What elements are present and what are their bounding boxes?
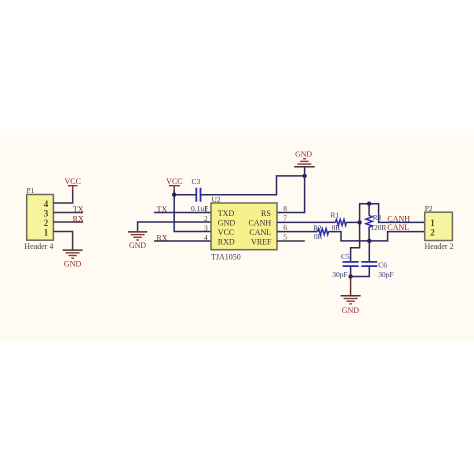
wire junction down to ground symbol (350, 277, 352, 296)
power port VCC (at U2) (166, 177, 182, 191)
svg-text:GND: GND (295, 150, 312, 159)
svg-text:GND: GND (64, 260, 82, 269)
IC U2 TJA1050 (204, 195, 287, 261)
wire TX to U2 pin1 (154, 212, 211, 214)
svg-text:VCC: VCC (166, 177, 182, 186)
svg-text:R3: R3 (373, 213, 382, 222)
junction R3 bottom / C6 (367, 239, 371, 243)
wire C5 bottom to ground junction (350, 266, 352, 276)
capacitor C6 (361, 260, 393, 279)
svg-text:2: 2 (204, 214, 208, 223)
svg-text:RS: RS (261, 209, 271, 218)
svg-text:GND: GND (129, 241, 146, 250)
junction R3 top (367, 202, 371, 206)
svg-text:0R: 0R (332, 223, 341, 232)
wire C6 bottom to ground junction (351, 266, 370, 276)
wire P1 pin1 to ground (53, 232, 72, 250)
svg-text:6: 6 (283, 223, 287, 232)
svg-text:4: 4 (204, 233, 208, 242)
wire CANH junction down to C5 (351, 222, 360, 261)
wire P1 pin4 to VCC riser (53, 190, 72, 203)
svg-text:CANH: CANH (387, 214, 410, 223)
ground symbol (U2 pin2) (128, 232, 147, 250)
capacitor C5 (332, 252, 358, 279)
resistor R1 (331, 210, 347, 232)
wire VCC riser to U2 pin3 (174, 190, 211, 232)
svg-text:P2: P2 (425, 204, 433, 213)
wire CANH up-and-over R3 (360, 204, 425, 223)
svg-text:C3: C3 (192, 177, 201, 186)
resistor R3 120R termination (366, 204, 387, 241)
svg-text:TX: TX (73, 205, 84, 214)
svg-text:GND: GND (218, 219, 236, 228)
wire U2 pin5 stub (277, 240, 305, 242)
wire junction down to U2 pin8 (277, 176, 305, 213)
wire VCC junction to C3 left plate (174, 194, 196, 196)
svg-text:TXD: TXD (218, 209, 235, 218)
resistor R2 (313, 223, 328, 241)
svg-text:RXD: RXD (218, 238, 235, 247)
wire U2 pin7 to R1 (277, 221, 335, 223)
svg-text:P1: P1 (27, 186, 35, 195)
svg-text:30pF: 30pF (378, 270, 393, 279)
wire P1 pin2 stub (net RX) (53, 221, 83, 223)
junction GND/RS (302, 174, 306, 178)
svg-text:Header 4: Header 4 (24, 242, 53, 251)
svg-text:1: 1 (204, 205, 208, 214)
svg-text:TJA1050: TJA1050 (211, 252, 241, 261)
svg-text:8: 8 (283, 204, 287, 213)
wire GND to U2 pin2 (138, 222, 211, 231)
junction CANH (357, 220, 361, 224)
wire R1 to CANH junction (346, 221, 359, 223)
svg-text:VREF: VREF (251, 238, 272, 247)
junction ground node (348, 274, 352, 278)
svg-text:RX: RX (156, 233, 167, 242)
svg-text:R1: R1 (331, 210, 340, 219)
svg-text:3: 3 (204, 224, 208, 233)
svg-text:Header 2: Header 2 (425, 242, 454, 251)
wire U2 pin6 to R2 (277, 231, 317, 233)
ground symbol under P1 (63, 250, 83, 269)
ground symbol (bottom) (341, 296, 361, 315)
svg-text:RX: RX (73, 214, 84, 223)
svg-text:3: 3 (44, 208, 49, 218)
svg-text:1: 1 (44, 227, 49, 237)
svg-text:C6: C6 (378, 260, 387, 269)
svg-text:CANL: CANL (249, 228, 271, 237)
ground symbol (top, inverted) (294, 150, 315, 176)
power port VCC (left) (64, 177, 80, 191)
svg-text:GND: GND (342, 306, 360, 315)
wire R2 jog under R3 to P2 pin2 (net CANL) (329, 232, 425, 241)
svg-text:VCC: VCC (64, 177, 80, 186)
wire C6 top lead (368, 241, 370, 262)
svg-text:VCC: VCC (218, 228, 234, 237)
junction VCC/C3 (172, 193, 176, 197)
svg-text:2: 2 (430, 227, 435, 237)
capacitor C3 (191, 177, 208, 213)
connector P1 (24, 186, 53, 251)
svg-text:C5: C5 (341, 252, 350, 261)
svg-text:7: 7 (283, 214, 287, 223)
svg-text:CANL: CANL (387, 223, 409, 232)
wire RX to U2 pin4 (154, 240, 211, 242)
wire P1 pin3 stub (net TX) (53, 212, 83, 214)
svg-text:30pF: 30pF (332, 270, 347, 279)
svg-text:TX: TX (157, 205, 168, 214)
svg-text:CANH: CANH (249, 219, 272, 228)
svg-text:4: 4 (44, 199, 49, 209)
svg-text:0R: 0R (314, 232, 323, 241)
svg-text:120R: 120R (371, 223, 387, 232)
svg-text:2: 2 (44, 218, 49, 228)
wire C3 right plate to RS net corner (201, 176, 305, 195)
svg-text:U2: U2 (212, 195, 221, 204)
connector P2 (425, 204, 454, 251)
